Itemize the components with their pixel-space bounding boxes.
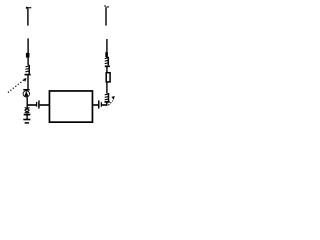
- wire (box to C4): [93, 104, 98, 106]
- capacitor C4 right plate: [101, 102, 102, 107]
- resistor R3 bottom bar: [24, 114, 31, 116]
- diode D1 circle: [23, 91, 29, 97]
- wire (left upper segment): [27, 38, 29, 53]
- resistor R4 (open rectangle): [106, 73, 110, 82]
- port IN (top-left terminal): [26, 7, 31, 9]
- wire (junction to C3): [27, 104, 36, 106]
- diode D1 (circle with triangle) cathode bar: [23, 89, 29, 91]
- resistor R2 (right upper zigzag): [105, 57, 109, 65]
- subcircuit box U1: [49, 91, 92, 122]
- wire: [26, 115, 28, 119]
- wire (right top stub): [105, 7, 107, 25]
- diode D1 triangle: [24, 91, 28, 97]
- resistor R2 bottom bar: [105, 65, 110, 67]
- variable arrow (dashed, right branch): [108, 96, 114, 105]
- resistor R5 (right lower zigzag): [105, 93, 109, 101]
- wire (right upper segment): [106, 39, 108, 59]
- light arrow (dashed, pointing at left branch): [8, 78, 27, 93]
- wire (C3 to box): [40, 104, 49, 106]
- wire (left top stub): [27, 9, 29, 26]
- wire (C4 to right column): [102, 104, 108, 106]
- capacitor C1 (filled bead, left branch): [26, 53, 30, 58]
- resistor R5 bottom bar: [105, 101, 110, 103]
- wire: [27, 75, 29, 89]
- ground GND1 bar 2: [25, 122, 29, 124]
- wire: [106, 82, 108, 93]
- capacitor C2 (filled bead, right branch): [105, 52, 108, 57]
- resistor R1 bottom bar: [25, 74, 31, 76]
- capacitor C4 left plate: [98, 100, 99, 108]
- wire: [106, 102, 108, 105]
- resistor R3 (small zigzag below left junction): [25, 107, 30, 114]
- capacitor C3 left plate: [36, 102, 37, 107]
- wire: [26, 97, 28, 107]
- wire: [27, 58, 29, 66]
- port OUT (top-right terminal): [104, 5, 109, 7]
- wire: [106, 67, 108, 73]
- resistor R1 (left zigzag): [26, 65, 30, 74]
- ground GND1 bar 1: [23, 119, 30, 121]
- capacitor C3 right plate: [38, 100, 39, 108]
